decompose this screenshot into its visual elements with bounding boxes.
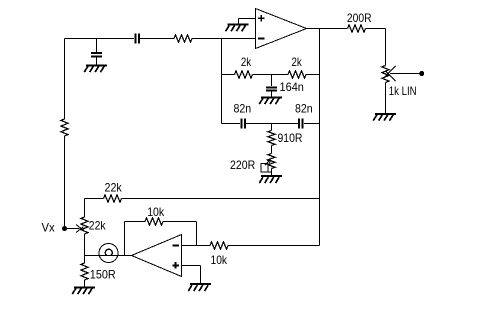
svg-text:22k: 22k <box>89 219 107 233</box>
svg-text:82n: 82n <box>295 101 313 115</box>
svg-text:Vx: Vx <box>42 220 55 234</box>
svg-text:10k: 10k <box>147 205 165 219</box>
svg-text:2k: 2k <box>241 55 252 69</box>
svg-text:1k LIN: 1k LIN <box>389 84 417 98</box>
svg-text:82n: 82n <box>234 101 252 115</box>
svg-text:22k: 22k <box>105 180 123 194</box>
svg-text:2k: 2k <box>292 55 303 69</box>
svg-text:150R: 150R <box>90 267 116 281</box>
svg-text:200R: 200R <box>347 11 372 25</box>
svg-text:220R: 220R <box>230 158 255 172</box>
svg-text:164n: 164n <box>280 80 304 94</box>
svg-text:910R: 910R <box>278 131 303 145</box>
svg-text:10k: 10k <box>211 253 228 267</box>
